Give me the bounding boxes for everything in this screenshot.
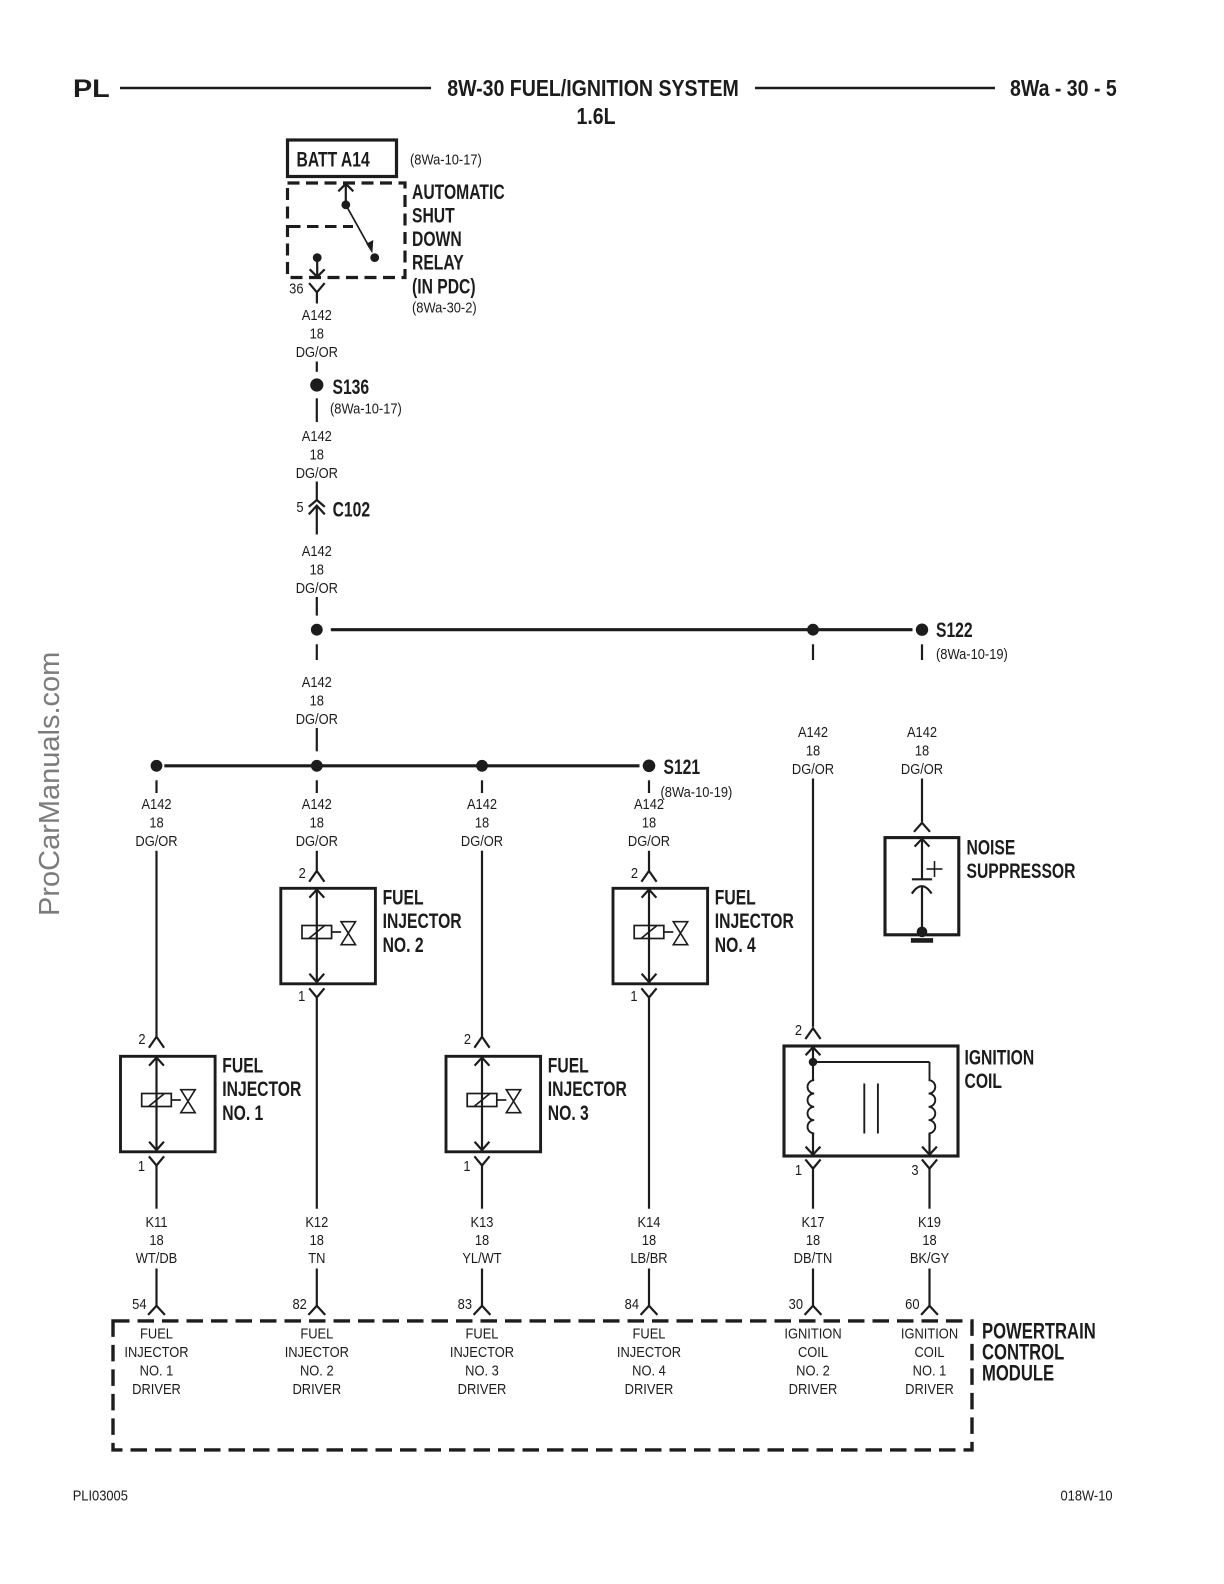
svg-text:AUTOMATIC: AUTOMATIC (412, 179, 505, 203)
svg-text:IGNITION: IGNITION (784, 1325, 841, 1342)
svg-text:SUPPRESSOR: SUPPRESSOR (967, 858, 1076, 882)
svg-text:18: 18 (642, 1231, 657, 1248)
svg-text:DG/OR: DG/OR (792, 760, 834, 777)
svg-text:ProCarManuals.com: ProCarManuals.com (34, 652, 66, 916)
svg-text:2: 2 (631, 864, 638, 881)
svg-text:SHUT: SHUT (412, 203, 455, 227)
svg-text:3: 3 (911, 1161, 918, 1178)
svg-text:84: 84 (625, 1295, 640, 1312)
svg-text:FUEL: FUEL (140, 1325, 173, 1342)
svg-text:WT/DB: WT/DB (136, 1249, 178, 1266)
svg-text:2: 2 (795, 1021, 802, 1038)
svg-text:18: 18 (475, 814, 490, 831)
svg-text:1: 1 (298, 987, 305, 1004)
svg-text:18: 18 (806, 742, 821, 759)
svg-text:DRIVER: DRIVER (292, 1380, 341, 1397)
svg-text:18: 18 (310, 814, 325, 831)
svg-text:MODULE: MODULE (982, 1361, 1054, 1386)
svg-text:INJECTOR: INJECTOR (285, 1343, 349, 1360)
svg-text:FUEL: FUEL (300, 1325, 333, 1342)
svg-text:(8Wa-10-17): (8Wa-10-17) (410, 151, 482, 168)
svg-text:FUEL: FUEL (715, 885, 756, 909)
svg-text:18: 18 (922, 1231, 937, 1248)
svg-text:(8Wa-10-19): (8Wa-10-19) (661, 783, 733, 800)
svg-text:INJECTOR: INJECTOR (715, 909, 794, 933)
svg-text:DG/OR: DG/OR (296, 343, 338, 360)
svg-text:018W-10: 018W-10 (1061, 1486, 1113, 1503)
svg-text:1: 1 (795, 1161, 802, 1178)
svg-text:IGNITION: IGNITION (965, 1045, 1035, 1069)
svg-text:INJECTOR: INJECTOR (450, 1343, 514, 1360)
svg-text:18: 18 (310, 446, 325, 463)
svg-text:A142: A142 (467, 795, 497, 812)
svg-text:K13: K13 (471, 1213, 494, 1230)
svg-text:18: 18 (149, 814, 164, 831)
svg-text:K14: K14 (638, 1213, 661, 1230)
svg-text:BATT A14: BATT A14 (297, 147, 371, 171)
svg-text:A142: A142 (302, 795, 332, 812)
svg-text:NO. 4: NO. 4 (715, 932, 756, 956)
svg-text:NO. 2: NO. 2 (300, 1362, 334, 1379)
svg-text:A142: A142 (798, 723, 828, 740)
svg-text:(IN PDC): (IN PDC) (412, 274, 476, 298)
svg-text:A142: A142 (634, 795, 664, 812)
svg-text:83: 83 (458, 1295, 473, 1312)
svg-text:K11: K11 (146, 1213, 168, 1230)
svg-text:FUEL: FUEL (548, 1053, 589, 1077)
svg-text:BK/GY: BK/GY (910, 1249, 950, 1266)
svg-text:A142: A142 (302, 306, 332, 323)
svg-text:1.6L: 1.6L (576, 104, 615, 130)
svg-text:A142: A142 (302, 673, 332, 690)
svg-text:DG/OR: DG/OR (135, 832, 177, 849)
svg-text:TN: TN (308, 1249, 325, 1266)
svg-text:36: 36 (289, 280, 304, 297)
svg-text:INJECTOR: INJECTOR (548, 1077, 627, 1101)
svg-text:DRIVER: DRIVER (458, 1380, 507, 1397)
svg-text:18: 18 (149, 1231, 164, 1248)
svg-text:NO. 3: NO. 3 (465, 1362, 499, 1379)
svg-text:NO. 4: NO. 4 (632, 1362, 666, 1379)
svg-text:DRIVER: DRIVER (789, 1380, 838, 1397)
svg-text:S136: S136 (333, 375, 370, 399)
svg-text:INJECTOR: INJECTOR (124, 1343, 188, 1360)
svg-text:FUEL: FUEL (222, 1053, 263, 1077)
svg-text:K12: K12 (305, 1213, 328, 1230)
svg-text:82: 82 (292, 1295, 307, 1312)
svg-text:18: 18 (642, 814, 657, 831)
svg-text:DG/OR: DG/OR (628, 832, 670, 849)
svg-text:COIL: COIL (914, 1343, 944, 1360)
svg-text:DG/OR: DG/OR (296, 579, 338, 596)
svg-text:IGNITION: IGNITION (901, 1325, 958, 1342)
svg-text:K19: K19 (918, 1213, 941, 1230)
svg-text:DRIVER: DRIVER (132, 1380, 181, 1397)
svg-text:DG/OR: DG/OR (296, 464, 338, 481)
svg-text:YL/WT: YL/WT (462, 1249, 502, 1266)
svg-text:A142: A142 (141, 795, 171, 812)
svg-text:18: 18 (915, 742, 930, 759)
svg-text:2: 2 (138, 1030, 145, 1047)
svg-text:COIL: COIL (965, 1068, 1002, 1092)
svg-text:DG/OR: DG/OR (461, 832, 503, 849)
svg-text:A142: A142 (907, 723, 937, 740)
svg-text:DRIVER: DRIVER (625, 1380, 674, 1397)
svg-text:(8Wa-30-2): (8Wa-30-2) (412, 298, 477, 315)
svg-text:NO. 3: NO. 3 (548, 1101, 589, 1125)
svg-text:8W-30 FUEL/IGNITION SYSTEM: 8W-30 FUEL/IGNITION SYSTEM (447, 76, 739, 102)
svg-text:PLI03005: PLI03005 (73, 1486, 128, 1503)
svg-text:FUEL: FUEL (633, 1325, 666, 1342)
svg-text:INJECTOR: INJECTOR (383, 909, 462, 933)
svg-text:FUEL: FUEL (466, 1325, 499, 1342)
svg-text:NO. 1: NO. 1 (913, 1362, 947, 1379)
svg-text:54: 54 (132, 1295, 147, 1312)
svg-text:18: 18 (310, 1231, 325, 1248)
svg-text:NO. 1: NO. 1 (222, 1101, 263, 1125)
svg-text:1: 1 (463, 1157, 470, 1174)
svg-text:DG/OR: DG/OR (296, 832, 338, 849)
svg-text:S121: S121 (664, 754, 701, 778)
svg-text:30: 30 (789, 1295, 804, 1312)
svg-text:2: 2 (299, 864, 306, 881)
svg-text:(8Wa-10-19): (8Wa-10-19) (936, 645, 1008, 662)
svg-text:PL: PL (73, 75, 110, 103)
svg-text:DOWN: DOWN (412, 227, 462, 251)
svg-text:FUEL: FUEL (383, 885, 424, 909)
svg-text:INJECTOR: INJECTOR (617, 1343, 681, 1360)
svg-text:DB/TN: DB/TN (794, 1249, 833, 1266)
svg-text:NO. 2: NO. 2 (796, 1362, 830, 1379)
svg-text:18: 18 (310, 692, 325, 709)
svg-text:INJECTOR: INJECTOR (222, 1077, 301, 1101)
svg-text:A142: A142 (302, 542, 332, 559)
svg-text:18: 18 (310, 325, 325, 342)
svg-text:NO. 2: NO. 2 (383, 932, 424, 956)
svg-text:S122: S122 (936, 617, 973, 641)
svg-text:1: 1 (630, 987, 637, 1004)
svg-text:2: 2 (464, 1030, 471, 1047)
svg-text:RELAY: RELAY (412, 250, 464, 274)
svg-text:18: 18 (475, 1231, 490, 1248)
svg-text:NO. 1: NO. 1 (140, 1362, 174, 1379)
svg-text:DG/OR: DG/OR (296, 710, 338, 727)
svg-text:DG/OR: DG/OR (901, 760, 943, 777)
svg-text:18: 18 (310, 561, 325, 578)
svg-text:NOISE: NOISE (967, 835, 1016, 859)
svg-text:1: 1 (138, 1157, 145, 1174)
svg-text:DRIVER: DRIVER (905, 1380, 954, 1397)
svg-text:5: 5 (296, 498, 303, 515)
svg-text:LB/BR: LB/BR (630, 1249, 667, 1266)
svg-text:(8Wa-10-17): (8Wa-10-17) (330, 400, 402, 417)
svg-text:K17: K17 (802, 1213, 825, 1230)
svg-text:COIL: COIL (798, 1343, 828, 1360)
svg-text:60: 60 (905, 1295, 920, 1312)
svg-text:8Wa - 30 - 5: 8Wa - 30 - 5 (1010, 76, 1117, 102)
svg-text:A142: A142 (302, 427, 332, 444)
svg-text:18: 18 (806, 1231, 821, 1248)
svg-text:C102: C102 (333, 497, 371, 521)
